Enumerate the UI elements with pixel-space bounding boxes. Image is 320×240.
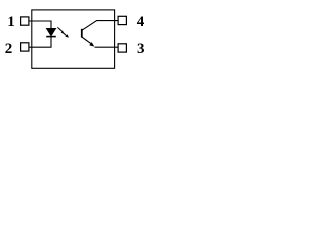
svg-text:2: 2 bbox=[5, 41, 13, 57]
svg-text:3: 3 bbox=[137, 41, 145, 57]
svg-text:1: 1 bbox=[7, 14, 15, 30]
emitter arrowhead bbox=[89, 42, 94, 47]
LED D1 triangle (anode) bbox=[46, 28, 56, 36]
svg-text:4: 4 bbox=[137, 14, 145, 30]
wire pin2 to LED cathode bbox=[29, 37, 51, 48]
pin 2 terminal square bbox=[21, 43, 29, 51]
light emission arrow 1 bbox=[57, 27, 64, 33]
phototransistor Q1 base bar bbox=[81, 29, 83, 38]
wire collector to pin 4 bbox=[82, 21, 118, 31]
emitter diagonal wire bbox=[82, 37, 92, 45]
package outline U1 bbox=[32, 10, 115, 68]
wire emitter to pin 3 bbox=[95, 46, 118, 48]
LED D1 cathode bar bbox=[46, 36, 56, 38]
wire pin1 to LED anode bbox=[29, 21, 51, 28]
pin 1 terminal square bbox=[21, 17, 29, 25]
pin 3 terminal square bbox=[118, 44, 126, 52]
pin 4 terminal square bbox=[118, 16, 126, 24]
light emission arrow 2 bbox=[62, 32, 69, 38]
